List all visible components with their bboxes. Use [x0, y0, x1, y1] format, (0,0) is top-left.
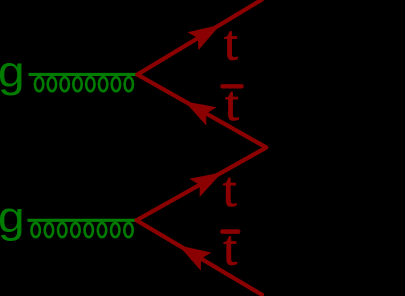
gluon curl bottom loop 4 [71, 223, 79, 237]
internal quark propagator chevron V1-V3-V2 [137, 75, 267, 221]
gluon curl bottom loop 5 [85, 223, 93, 237]
svg-text:t: t [224, 15, 238, 71]
svg-text:t: t [223, 220, 237, 276]
arrow on upper t line (pointing outward) [187, 25, 220, 51]
arrow on tbar propagator (pointing to V1) [184, 101, 216, 125]
gluon curl bottom loop 1 [32, 223, 40, 237]
svg-text:g: g [0, 193, 25, 242]
gluon curl top loop 4 [73, 77, 81, 91]
svg-text:t: t [223, 161, 237, 217]
label tbar (upper internal): overbar [222, 84, 241, 88]
gluon line bottom [27, 219, 135, 222]
gluon line top [29, 73, 137, 76]
svg-text:g: g [0, 48, 25, 97]
gluon curl bottom loop 6 [98, 223, 106, 237]
outgoing anti-top tbar line (lower) [137, 220, 263, 294]
gluon curl bottom loop 7 [111, 223, 119, 237]
gluon curl bottom loop 8 [124, 223, 132, 237]
gluon curl top loop 7 [112, 77, 120, 91]
gluon curl bottom loop 3 [58, 223, 66, 237]
gluon curl top loop 6 [99, 77, 107, 91]
label tbar (lower outgoing): overbar [222, 229, 238, 234]
svg-text:t: t [225, 75, 239, 131]
arrow on t propagator (pointing to V3) [189, 172, 222, 197]
arrow on lower tbar line (pointing to V2) [179, 245, 212, 270]
gluon curl top loop 2 [48, 77, 56, 91]
gluon curl top loop 3 [61, 77, 69, 91]
gluon curl top loop 5 [86, 77, 94, 91]
outgoing top quark t line (upper) [137, 0, 262, 75]
gluon curl bottom loop 2 [45, 223, 53, 237]
gluon curl top loop 8 [125, 77, 133, 91]
gluon curl top loop 1 [35, 77, 43, 91]
